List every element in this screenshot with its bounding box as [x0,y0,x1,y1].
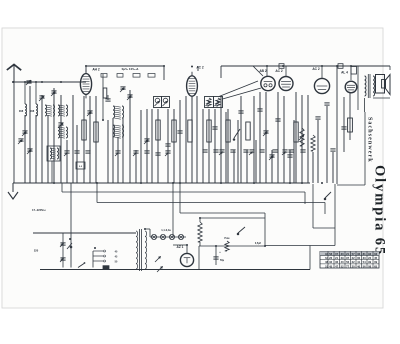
wire det link2 [223,88,262,99]
wire [233,150,235,183]
wire [51,161,53,183]
voltage selector taps [93,250,106,262]
wire [29,86,31,183]
tube V1 AH2 [80,70,91,99]
capacitor [85,151,90,153]
svg-text:Pote: Pote [224,237,230,240]
capacitor [133,151,139,156]
junction [301,182,303,184]
capacitor [213,150,218,152]
svg-text:+: + [219,250,221,254]
junction [24,81,26,83]
wire [167,109,169,183]
wire left link [24,82,26,104]
wire [317,120,319,183]
junction [179,182,181,184]
wire heater top [145,229,150,237]
wire [76,125,78,183]
capacitor [259,150,264,152]
svg-text:30: 30 [341,252,344,256]
capacitor [288,150,293,152]
wire [41,95,43,183]
oscillator coil T5 [113,125,124,138]
wire bus4 [180,183,265,213]
capacitor [74,151,79,153]
capacitor C3 variable [39,96,45,101]
junction [163,65,165,67]
wire V2 grid stub [197,66,199,71]
svg-text:38: 38 [325,260,328,264]
capacitor C26 [60,258,66,262]
capacitor C13 [165,144,170,146]
capacitor C7 padder [27,149,33,154]
capacitor C17 [257,109,262,111]
svg-text:57: 57 [352,252,355,256]
wire [107,120,109,183]
junction [282,65,284,67]
wire [253,96,255,183]
capacitor C25 [60,243,66,247]
wire [289,150,291,183]
svg-text:07: 07 [335,252,338,256]
wire [146,109,148,183]
wire stair3 [298,246,300,256]
svg-text:26: 26 [329,256,332,260]
junction [199,217,201,219]
wire [157,109,159,183]
junction [102,119,104,121]
wire [117,137,119,183]
wire stair1 [264,213,266,246]
oscillator coil T4 [113,106,124,119]
svg-text:58: 58 [329,252,332,256]
svg-text:008: 008 [19,109,24,113]
label pote [224,237,230,240]
junction [321,65,323,67]
wire [24,115,26,183]
label mains freq [32,208,46,212]
wire [246,150,248,183]
text Olympia 65 [372,165,388,256]
label lamps [161,228,171,232]
resistor R5 [156,120,160,140]
capacitor [272,150,277,152]
wire stair4 [0,0,1,1]
wire V4 anode [285,66,287,77]
svg-text:77: 77 [346,264,349,268]
coil L1 008 [19,104,27,116]
svg-text:22: 22 [352,260,355,264]
wire antenna down [13,82,15,183]
tube V2 AC2 [187,72,198,100]
capacitor C5 [51,91,57,96]
wire [237,120,239,183]
resistor R14 pote [225,241,229,251]
junction [53,182,55,184]
svg-text:08: 08 [368,264,371,268]
svg-text:41: 41 [357,260,360,264]
svg-text:008: 008 [30,109,35,113]
wire [196,96,198,183]
wire [277,92,279,183]
resistor R8 [207,120,211,142]
wire B+ main [336,66,338,184]
svg-text:36: 36 [357,252,360,256]
wire [255,140,257,183]
wire [271,150,273,183]
IF transformer F3 [205,97,214,108]
capacitor [249,150,255,155]
wire [283,96,285,183]
resistor R10 [246,122,250,140]
wire screen [357,66,359,110]
junction [266,65,268,67]
svg-text:99: 99 [368,260,371,264]
transformer T2 [58,105,68,116]
svg-text:51: 51 [325,264,328,268]
capacitor [282,150,288,155]
resistor R2 [82,120,86,140]
svg-text:94: 94 [325,252,328,256]
svg-text:29: 29 [341,256,344,260]
capacitor C23 [324,103,329,105]
wire psu mid [199,245,265,247]
resistor R16 [348,118,353,132]
junction [94,247,96,249]
wire [151,109,153,183]
svg-text:22: 22 [352,256,355,260]
wire [307,95,309,183]
capacitor [219,150,225,155]
IF transformer F1 [154,97,162,108]
wire [129,90,131,183]
capacitor [202,150,207,152]
junction [215,245,217,247]
antenna [7,65,21,83]
ground [8,183,18,199]
IF transformer F2 [162,97,170,108]
capacitor [230,150,235,152]
junction [35,81,37,83]
svg-text:AC 2: AC 2 [196,66,203,70]
svg-text:Olympia 65: Olympia 65 [372,165,388,256]
capacitor C27 50u [213,250,224,262]
wire [332,152,334,183]
voltage selector arrows [155,256,163,272]
capacitor C18 [269,155,275,160]
label AC2 [196,66,203,70]
wire stair2 [265,245,335,247]
wire [225,112,227,183]
dial lamps row [150,234,186,239]
junction [264,245,266,247]
resistor top R1 [351,67,357,75]
wire [72,95,74,183]
wire [227,109,229,183]
wire [185,96,187,183]
wire bus3 drop [324,203,326,215]
svg-text:AB 2: AB 2 [259,69,266,73]
svg-text:64: 64 [325,256,328,260]
wire [259,92,261,183]
capacitor C22 [315,117,320,119]
junction [253,182,255,184]
tube V4 AC2 [279,77,293,91]
wire [140,110,142,183]
wire [202,109,204,183]
wire bus3 [97,183,325,203]
label AC2b [275,69,282,73]
wire det link1 [219,81,258,97]
wire [214,109,216,183]
capacitor C9 [127,95,133,100]
label 220V [34,249,39,253]
wire left link2 [35,82,37,104]
wire [66,140,68,183]
wire [349,93,351,140]
capacitor C21 [263,131,269,136]
volume pot P1 [299,128,304,146]
wire [112,118,114,183]
svg-text:65: 65 [374,264,377,268]
capacitor C14 [177,131,182,133]
capacitor [165,151,171,156]
rectifier tube AZ1 [180,253,193,266]
wire bus right [200,184,335,246]
wire [83,96,85,183]
wire c27 [215,246,217,265]
wire psu bottom [198,246,200,270]
wire [191,96,193,183]
resistor R13 [0,0,1,1]
wire cap link [62,233,64,268]
wire top right bus [221,66,390,78]
junction [321,182,323,184]
wire rect top [173,245,187,253]
wire [295,92,297,183]
svg-text:52: 52 [341,264,344,268]
wire [301,95,303,183]
svg-text:56: 56 [363,264,366,268]
resistor box R15 [76,162,85,169]
svg-text:36: 36 [335,260,338,264]
switch S1 [233,129,240,140]
label AZ1 [177,245,184,249]
page background [2,28,383,308]
capacitor [144,151,149,153]
wire bus2 [62,183,305,192]
svg-text:AL 4: AL 4 [341,71,348,75]
svg-text:21: 21 [346,252,349,256]
capacitor top C1 [279,64,284,69]
wire [208,109,210,183]
label taps [115,251,118,264]
tube V5 AC2 [314,78,329,93]
wire psu feed left [67,183,72,268]
wire speaker top [389,66,391,70]
wire [35,115,37,183]
output transformer T6 [365,74,375,98]
svg-text:81: 81 [363,252,366,256]
svg-text:40: 40 [341,260,344,264]
svg-text:45: 45 [374,256,377,260]
wire [179,100,181,183]
wire [327,93,329,130]
resistor R9 [226,120,230,142]
junction [85,65,87,67]
wire [265,92,267,183]
resistor R6 [172,120,176,142]
capacitor C8 [87,111,93,116]
capacitor [243,150,248,152]
svg-text:AC 2: AC 2 [312,67,319,71]
junction [140,182,142,184]
coil box L4 [47,146,60,161]
text Sachsenwerk [367,117,373,163]
junction [289,182,291,184]
capacitor C6 padder [22,131,28,136]
wire stair5 [309,246,311,270]
capacitor C10 [105,99,110,101]
label AH2 [92,68,99,72]
capacitor C16 [238,111,243,113]
svg-text:20: 20 [352,264,355,268]
label AB2 [259,69,266,73]
svg-text:220: 220 [34,249,39,253]
wire [326,106,328,183]
junction [220,182,222,184]
junction [29,81,31,83]
label 0,1uF [122,67,140,71]
svg-text:56: 56 [346,260,349,264]
capacitor [115,151,121,156]
svg-text:45: 45 [329,264,332,268]
label AZ1b [0,0,1,1]
junction [336,65,338,67]
junction [144,228,146,230]
wire [89,96,91,183]
switch S2 [324,192,331,200]
capacitor [155,153,160,155]
capacitor C15 [212,127,217,129]
svg-text:22: 22 [368,256,371,260]
junction [12,81,14,83]
capacitor [300,150,305,152]
power transformer T7 primary [136,231,138,269]
wire [220,96,222,183]
resistor R12 [311,135,315,151]
fuse F5 [103,266,109,270]
wire right boundary [337,112,365,185]
capacitor C4 variable [58,123,64,128]
svg-text:17~220Vω: 17~220Vω [32,208,46,212]
capacitor C24 [330,149,335,151]
svg-text:93: 93 [368,252,371,256]
switch S3 mains [78,262,85,267]
wire bottom main [40,269,310,271]
table tube data [320,252,379,269]
transformer T3 [58,127,68,138]
wire [95,96,97,183]
capacitor C29 [341,127,346,129]
svg-text:32: 32 [329,260,332,264]
junction [186,244,188,246]
resistor R11 [294,122,298,142]
capacitor antenna trimmer [26,80,32,85]
svg-text:47: 47 [335,264,338,268]
switch S4 [237,227,245,235]
capacitor C12 [144,139,150,144]
wire psu feed [172,183,174,237]
junction [172,182,174,184]
svg-text:09: 09 [374,260,377,264]
wire [173,109,175,183]
svg-text:40: 40 [357,264,360,268]
wire antenna feed [14,81,86,83]
wire [293,120,295,183]
svg-text:50μ: 50μ [220,259,225,262]
label AL4 [341,71,348,75]
svg-text:00: 00 [357,256,360,260]
svg-text:33: 33 [363,256,366,260]
wire [60,95,62,183]
wire [135,150,137,183]
junction [191,66,193,68]
ground bus [13,182,310,184]
choke L3 [198,222,202,242]
wire taps [92,251,94,268]
capacitor C20 [287,155,292,157]
capacitor [64,151,70,156]
svg-text:1,1-0,4a: 1,1-0,4a [161,228,171,232]
junction [350,65,352,67]
tube V6 AL4 [345,81,357,93]
wire choke [199,218,201,246]
resistor R3 [94,122,98,142]
IF transformer F4 [214,97,223,108]
power transformer T7 secondary [145,231,147,269]
wire [122,118,124,183]
svg-text:54: 54 [363,260,366,264]
wire top left block [86,66,164,80]
capacitor C19 [275,119,280,121]
wire bus2 drop [304,192,306,204]
power transformer T7 core [140,229,142,271]
coil L2 008 [30,104,38,116]
wire V6 anode [350,66,352,80]
svg-text:0,5μF: 0,5μF [255,242,262,245]
svg-text:AH 2: AH 2 [92,68,99,72]
wire [312,152,314,183]
wire [53,88,55,183]
junction [60,81,62,83]
wire V5 anode [321,66,323,78]
tube V3 AB2 [261,76,275,90]
capacitor top C2 [338,64,343,69]
resistor R7 [188,120,192,142]
wire [240,96,242,183]
svg-text:Sachsenwerk: Sachsenwerk [367,117,373,163]
wire mains top [33,232,136,234]
svg-text:03: 03 [374,252,377,256]
component box row [101,74,155,78]
label AC2c [312,67,319,71]
junction [96,182,98,184]
resistor R4 [103,88,107,98]
svg-text:97: 97 [346,256,349,260]
svg-text:21: 21 [335,256,338,260]
label 05uF [255,242,262,245]
